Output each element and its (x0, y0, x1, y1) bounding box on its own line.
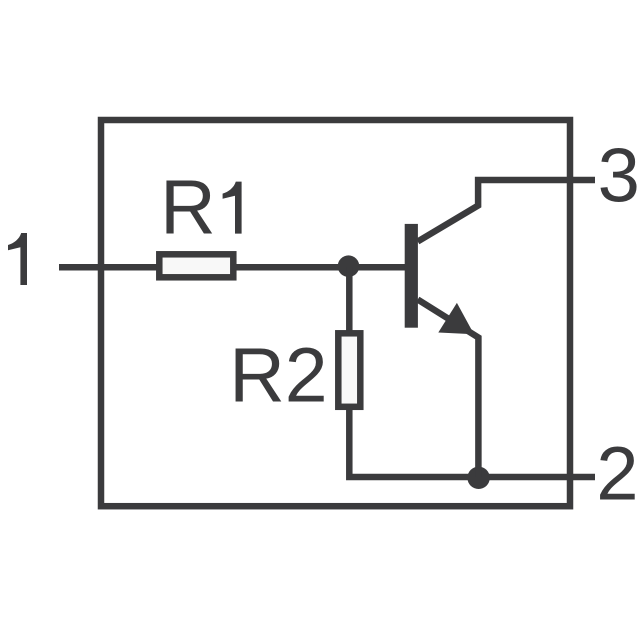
node junction at base (dot) (338, 255, 360, 277)
wire node to resistor R2 (346, 267, 353, 335)
pin 1 label (8, 233, 27, 285)
transistor Q1 base bar (405, 224, 418, 328)
node junction at emitter/pin 2 (dot) (467, 467, 489, 489)
component package outline box (101, 120, 570, 506)
resistor R2 (338, 333, 360, 407)
transistor Q1 emitter path to pin 2 node (418, 300, 479, 478)
svg-text:R2: R2 (229, 333, 327, 419)
wire R2 bottom to pin 2 rail (349, 407, 595, 478)
svg-text:3: 3 (598, 134, 640, 219)
resistor R1 (159, 254, 233, 277)
svg-text:2: 2 (596, 432, 638, 517)
svg-text:R: R (160, 165, 216, 251)
transistor Q1 emitter arrowhead (438, 303, 474, 334)
transistor Q1 collector path to pin 3 (418, 180, 595, 242)
wire R1 to base node (237, 264, 406, 271)
wire pin 1 to resistor R1 (59, 264, 159, 271)
